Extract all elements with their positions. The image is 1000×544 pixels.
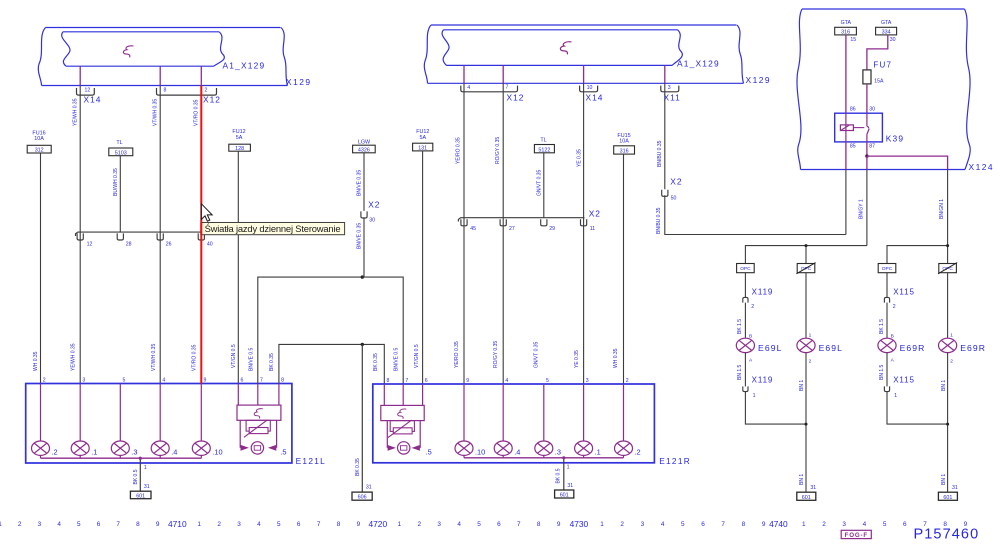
pin stub A1.12 xyxy=(79,66,81,85)
svg-text:BN/VE 0.35: BN/VE 0.35 xyxy=(357,223,363,249)
svg-text:7: 7 xyxy=(405,378,408,384)
svg-text:FU7: FU7 xyxy=(873,60,892,69)
svg-text:26: 26 xyxy=(166,241,172,247)
svg-text:6: 6 xyxy=(497,521,501,528)
svg-text:RO/GY 0.35: RO/GY 0.35 xyxy=(495,137,501,164)
svg-text:6: 6 xyxy=(903,521,907,528)
wire K39.85 down xyxy=(845,142,847,170)
svg-text:128: 128 xyxy=(235,146,244,152)
svg-text:7: 7 xyxy=(317,521,321,528)
svg-text:GTA: GTA xyxy=(881,20,892,26)
svg-text:2: 2 xyxy=(43,378,46,384)
svg-text:85: 85 xyxy=(850,144,856,150)
svg-text:OPC: OPC xyxy=(740,266,751,272)
lamp E121L.4 xyxy=(151,384,177,459)
svg-text:BN/VE 0.35: BN/VE 0.35 xyxy=(357,170,363,196)
svg-text:E69R: E69R xyxy=(960,343,986,353)
lamp E121R.3 xyxy=(535,384,561,458)
connector X2 pin 29 cup xyxy=(541,219,555,232)
wire 87 down (BN/GY) xyxy=(866,156,868,169)
OPC box crossed (E69R direct) xyxy=(938,263,957,274)
pin stub A1.2 xyxy=(200,66,202,85)
svg-text:BK 0.5: BK 0.5 xyxy=(556,468,562,483)
svg-text:3: 3 xyxy=(437,521,441,528)
lamp E121R.10 xyxy=(455,384,485,458)
lamp E121L.3 xyxy=(111,384,137,459)
svg-text:X11: X11 xyxy=(664,93,681,103)
svg-text:Światła jazdy dziennej Sterowa: Światła jazdy dziennej Sterowanie xyxy=(205,223,341,234)
svg-text:P157460: P157460 xyxy=(914,527,980,543)
svg-text:2: 2 xyxy=(217,521,221,528)
svg-text:YE/RO 0.35: YE/RO 0.35 xyxy=(456,137,462,164)
svg-text:X129: X129 xyxy=(746,75,772,85)
svg-text:BN 1.5: BN 1.5 xyxy=(879,364,885,380)
svg-text:WH 0.35: WH 0.35 xyxy=(613,348,619,368)
svg-text:4: 4 xyxy=(257,521,261,528)
svg-text:.1: .1 xyxy=(595,447,601,456)
svg-text:3: 3 xyxy=(586,378,589,384)
svg-text:6: 6 xyxy=(701,521,705,528)
svg-text:3: 3 xyxy=(237,521,241,528)
relay K39 contact xyxy=(867,113,870,142)
svg-text:15A: 15A xyxy=(874,78,884,84)
svg-text:4: 4 xyxy=(467,85,470,91)
svg-text:BU/WH 0.35: BU/WH 0.35 xyxy=(113,168,119,196)
svg-text:BK 0.35: BK 0.35 xyxy=(269,353,275,371)
svg-text:LGW: LGW xyxy=(358,139,371,145)
svg-text:601: 601 xyxy=(802,495,811,501)
svg-text:27: 27 xyxy=(509,226,515,232)
svg-text:2: 2 xyxy=(809,358,812,364)
svg-text:10: 10 xyxy=(587,85,593,91)
wire OPC to X119.2 xyxy=(744,273,746,298)
svg-text:A1_X129: A1_X129 xyxy=(223,61,266,71)
svg-text:8: 8 xyxy=(742,521,746,528)
svg-text:7: 7 xyxy=(116,521,120,528)
svg-text:YE 0.35: YE 0.35 xyxy=(574,350,580,368)
svg-text:VT/WH 0.35: VT/WH 0.35 xyxy=(151,344,157,371)
svg-text:X2: X2 xyxy=(368,199,380,209)
svg-text:4: 4 xyxy=(457,521,461,528)
svg-text:312: 312 xyxy=(35,148,44,154)
svg-text:E121R: E121R xyxy=(659,456,691,466)
svg-text:31: 31 xyxy=(567,483,573,489)
svg-text:8: 8 xyxy=(281,378,284,384)
svg-text:GTA: GTA xyxy=(841,20,852,26)
wire YE/WH 0.35 X14.12 down xyxy=(79,86,81,384)
svg-text:WH 0.35: WH 0.35 xyxy=(33,351,39,371)
svg-text:X119: X119 xyxy=(752,287,774,296)
svg-text:9: 9 xyxy=(156,521,160,528)
svg-text:.5: .5 xyxy=(280,447,286,456)
svg-text:50: 50 xyxy=(671,196,677,202)
E121R lamp bus xyxy=(464,457,624,459)
relay K39 box xyxy=(835,113,883,142)
wire BN 1 lamp 2 down xyxy=(941,353,958,493)
wire VT/RO 0.35 highlighted red xyxy=(200,86,202,384)
svg-text:.10: .10 xyxy=(475,447,485,456)
svg-text:X2: X2 xyxy=(670,177,682,187)
wire BN 1.5 lamp A to X119.1 xyxy=(737,353,753,387)
tooltip Światła jazdy dziennej Sterowanie xyxy=(201,223,344,235)
lamp E69L (outer) xyxy=(736,338,782,353)
svg-text:.4: .4 xyxy=(171,447,177,456)
OPC box (E69L X119 side) xyxy=(737,264,755,273)
svg-text:3: 3 xyxy=(668,85,671,91)
wire 30 GTA334 to FU7 xyxy=(867,35,888,70)
svg-text:2: 2 xyxy=(18,521,22,528)
wire feed right lamps xyxy=(887,246,948,264)
wire OPC to lamp E69L 1 xyxy=(806,273,812,339)
svg-text:4: 4 xyxy=(661,521,665,528)
connector X14 bracket pin 10 (middle) xyxy=(580,85,598,92)
junction 606 drop xyxy=(361,343,364,346)
svg-text:VT/GN 0.5: VT/GN 0.5 xyxy=(414,344,420,368)
svg-text:VT/WH 0.35: VT/WH 0.35 xyxy=(153,99,159,126)
svg-text:11: 11 xyxy=(590,226,595,232)
fuse FU12 5A ref 128 xyxy=(229,129,251,152)
pin stub A1.7 xyxy=(502,65,504,83)
svg-text:7: 7 xyxy=(517,521,521,528)
wire BK 0.35 bus (E121L.8 - E121R.8) xyxy=(279,344,384,384)
svg-text:1: 1 xyxy=(600,521,604,528)
svg-text:BN/GY 1: BN/GY 1 xyxy=(859,199,865,219)
svg-text:12: 12 xyxy=(85,88,91,94)
svg-text:31: 31 xyxy=(144,484,150,490)
svg-text:6: 6 xyxy=(297,521,301,528)
connector X129 (left harness torn box) xyxy=(38,28,311,88)
wire BN/VE 0.35 X2.30 to junction xyxy=(357,217,365,277)
connector X115 pin 1 xyxy=(884,376,915,399)
junction LGW drop xyxy=(361,275,364,278)
svg-text:BN 1: BN 1 xyxy=(799,380,805,391)
break squiggle (middle A1 box) xyxy=(560,42,571,55)
svg-text:.3: .3 xyxy=(131,447,137,456)
module box E121L xyxy=(26,384,292,464)
wire BU/WH 0.35 TL to X2.28 xyxy=(119,156,121,232)
module A1_X129 (left, inner torn box) xyxy=(62,32,266,71)
svg-text:.2: .2 xyxy=(52,447,58,456)
svg-text:4730: 4730 xyxy=(570,519,589,529)
svg-text:X119: X119 xyxy=(752,376,774,385)
svg-text:4: 4 xyxy=(57,521,61,528)
svg-text:316: 316 xyxy=(841,30,850,36)
DRL unit E121L.5 xyxy=(237,384,286,457)
E121L ground drop pin 1 xyxy=(133,457,150,492)
connector X2 row line (middle) xyxy=(458,218,584,222)
svg-text:30: 30 xyxy=(869,107,875,113)
wire BK 1.5 to lamp E69L B xyxy=(737,303,752,340)
sheet tag FOG-F xyxy=(841,530,871,539)
lamp E121L.10 xyxy=(192,384,222,459)
E121L pin numbers xyxy=(43,378,284,384)
svg-text:2: 2 xyxy=(822,521,826,528)
svg-text:601: 601 xyxy=(943,495,952,501)
wire X119.1 to join xyxy=(745,392,806,425)
svg-text:15: 15 xyxy=(850,37,856,43)
svg-text:2: 2 xyxy=(205,88,208,94)
svg-text:RO/GY 0.35: RO/GY 0.35 xyxy=(493,341,499,368)
module box E121R xyxy=(373,384,655,463)
svg-text:.1: .1 xyxy=(91,447,97,456)
svg-text:1: 1 xyxy=(753,393,756,399)
connector X2 pin 12 cup xyxy=(77,233,92,247)
pin stub A1.8 xyxy=(159,66,161,85)
junction K39.87 xyxy=(865,154,868,157)
lamp E69R (inner) xyxy=(939,338,987,353)
wire FU7 to K39.30 xyxy=(866,84,868,113)
svg-text:1: 1 xyxy=(950,332,953,338)
svg-text:601: 601 xyxy=(136,493,145,499)
svg-text:316: 316 xyxy=(620,149,629,155)
wire BN/VE 0.5 bus (E121L.7 - E121R.7) xyxy=(258,277,403,384)
svg-text:E121L: E121L xyxy=(296,456,327,466)
svg-text:VT/RO 0.35: VT/RO 0.35 xyxy=(191,344,197,371)
svg-text:3: 3 xyxy=(842,521,846,528)
svg-text:3: 3 xyxy=(82,378,85,384)
svg-text:9: 9 xyxy=(204,378,207,384)
svg-text:45: 45 xyxy=(470,226,476,232)
svg-text:86: 86 xyxy=(850,107,856,113)
svg-text:X124: X124 xyxy=(969,162,995,172)
svg-text:2: 2 xyxy=(893,304,896,310)
wire BN 1.5 lamp A to X115.1 xyxy=(879,353,895,387)
svg-text:BK 1.5: BK 1.5 xyxy=(737,319,743,334)
svg-text:5122: 5122 xyxy=(538,147,550,153)
svg-text:E69R: E69R xyxy=(900,343,926,353)
svg-text:X115: X115 xyxy=(893,376,915,385)
svg-text:VT/GN 0.5: VT/GN 0.5 xyxy=(231,344,237,368)
svg-text:FOG-F: FOG-F xyxy=(845,532,868,539)
connector X2 pin 50 cup xyxy=(662,177,683,202)
break squiggle (left A1 box) xyxy=(123,46,133,57)
lamp E121R.2 xyxy=(615,384,641,458)
svg-text:4: 4 xyxy=(863,521,867,528)
ground ref 606 xyxy=(352,492,372,501)
svg-text:5A: 5A xyxy=(420,135,427,141)
svg-text:5: 5 xyxy=(123,378,126,384)
connector X119 pin 1 xyxy=(743,376,774,399)
wire OPC to X115.2 xyxy=(886,273,888,298)
E121R ground drop pin 1 xyxy=(556,456,574,490)
pin stub A1.3 xyxy=(664,65,666,83)
svg-text:E69L: E69L xyxy=(758,343,782,353)
svg-text:BN/GN 1: BN/GN 1 xyxy=(939,199,945,219)
svg-text:5: 5 xyxy=(277,521,281,528)
svg-text:OPC: OPC xyxy=(801,266,812,272)
svg-text:9: 9 xyxy=(357,521,361,528)
svg-text:4710: 4710 xyxy=(168,519,187,529)
svg-text:BN 1: BN 1 xyxy=(941,380,947,391)
ground ref 601 (E121L) xyxy=(130,491,151,499)
fuse FU12 5A ref 131 xyxy=(413,129,433,152)
pin stub A1.4 xyxy=(463,65,465,83)
svg-text:BN/VE 0.5: BN/VE 0.5 xyxy=(248,347,254,371)
wire WH 0.35 FU15 to E121R.2 xyxy=(613,154,624,384)
E121R pin numbers xyxy=(387,378,629,384)
pin stub A1.10 xyxy=(583,65,585,83)
connector X2 pin 11 cup xyxy=(581,219,596,232)
lamp E121R.1 xyxy=(575,384,601,458)
E121L lamp bus xyxy=(41,457,202,459)
svg-text:30: 30 xyxy=(890,37,896,43)
svg-text:BN/BU 0.35: BN/BU 0.35 xyxy=(656,207,662,234)
svg-text:OPC: OPC xyxy=(942,266,953,272)
svg-text:6: 6 xyxy=(97,521,101,528)
svg-text:OPC: OPC xyxy=(882,266,893,272)
svg-text:.10: .10 xyxy=(212,447,222,456)
svg-text:X12: X12 xyxy=(203,95,221,105)
svg-text:1: 1 xyxy=(894,393,897,399)
connector X11 bracket pin 3 xyxy=(661,85,679,92)
connector X2 pin 26 cup xyxy=(157,233,172,247)
connector X124 torn box xyxy=(797,9,994,172)
svg-text:YE 0.35: YE 0.35 xyxy=(576,149,582,167)
branch to OPC2 xyxy=(805,246,807,264)
ground ref 601 (E69R) xyxy=(938,492,957,501)
svg-text:31: 31 xyxy=(952,485,958,491)
connector X119 pin 2 xyxy=(743,287,774,310)
svg-text:3: 3 xyxy=(641,521,645,528)
lamp E69L (inner) xyxy=(797,338,843,353)
svg-text:BN 1.5: BN 1.5 xyxy=(737,364,743,380)
connector X129 (middle harness torn box) xyxy=(424,25,771,85)
OPC box (E69R X115 side) xyxy=(878,264,896,273)
svg-text:4326: 4326 xyxy=(358,148,370,154)
svg-text:GN/VT 0.35: GN/VT 0.35 xyxy=(533,341,539,368)
svg-text:YE/RO 0.35: YE/RO 0.35 xyxy=(454,341,460,368)
wire BN 1 lamp 2 down xyxy=(799,353,816,493)
svg-text:4740: 4740 xyxy=(769,519,788,529)
svg-text:TL: TL xyxy=(116,140,122,146)
wire K39.87 down xyxy=(866,142,868,156)
connector X12 bracket pins 8,2 xyxy=(157,88,217,96)
svg-text:8: 8 xyxy=(337,521,341,528)
svg-text:3: 3 xyxy=(38,521,42,528)
svg-text:31: 31 xyxy=(810,485,816,491)
wire BN/VE 0.35 LGW to X2.30 xyxy=(357,153,365,211)
svg-text:28: 28 xyxy=(126,241,132,247)
svg-text:2: 2 xyxy=(751,304,754,310)
ruler scale row xyxy=(0,519,968,529)
svg-text:BN/BU 0.35: BN/BU 0.35 xyxy=(657,140,663,167)
svg-text:BN/VE 0.5: BN/VE 0.5 xyxy=(394,347,400,371)
svg-text:1: 1 xyxy=(809,332,812,338)
svg-text:VT/RO 0.35: VT/RO 0.35 xyxy=(193,99,199,126)
svg-text:601: 601 xyxy=(560,493,569,499)
svg-text:BK 0.5: BK 0.5 xyxy=(133,469,139,484)
svg-text:2: 2 xyxy=(620,521,624,528)
ground ref 601 (E121R) xyxy=(555,490,574,499)
wire feed left lamps xyxy=(745,246,867,264)
svg-text:9: 9 xyxy=(466,378,469,384)
DRL unit E121R.5 xyxy=(381,384,432,456)
svg-text:X2: X2 xyxy=(589,208,601,218)
svg-text:5A: 5A xyxy=(236,135,243,141)
switch TL ref 5103 xyxy=(109,140,133,156)
mouse cursor xyxy=(201,204,212,221)
svg-text:X12: X12 xyxy=(507,93,525,103)
terminal GTA ref 334 xyxy=(876,20,897,43)
svg-text:4720: 4720 xyxy=(368,519,387,529)
module A1_X129 (middle, inner torn box) xyxy=(442,30,720,69)
switch TL ref 5122 xyxy=(534,137,554,153)
connector X12 bracket pins 4,7 (middle) xyxy=(461,84,518,91)
svg-text:10A: 10A xyxy=(34,136,44,142)
connector X14 bracket pin 12 xyxy=(77,88,95,96)
connector X2 pin 40 cup xyxy=(198,233,213,247)
wire YE/RO 0.35 X12.4 down xyxy=(463,83,465,384)
svg-text:X14: X14 xyxy=(84,95,102,105)
svg-text:9: 9 xyxy=(557,521,561,528)
connector X2 pin 27 cup xyxy=(500,219,515,232)
svg-text:2: 2 xyxy=(418,521,422,528)
svg-text:2: 2 xyxy=(626,378,629,384)
svg-text:1: 1 xyxy=(197,521,201,528)
svg-text:12: 12 xyxy=(87,241,93,247)
svg-text:1: 1 xyxy=(398,521,402,528)
svg-text:X129: X129 xyxy=(286,77,312,87)
wire BN/BU 0.35 X11.3 to K39.85 line xyxy=(664,83,666,189)
wire WH 0.35 FU16 to E121L.2 xyxy=(40,153,42,384)
svg-text:4: 4 xyxy=(505,378,508,384)
svg-text:1: 1 xyxy=(144,465,147,471)
wire RO/GY 0.35 X12.7 down xyxy=(502,83,504,384)
relay K39 coil xyxy=(840,113,864,142)
svg-text:8: 8 xyxy=(136,521,140,528)
svg-text:X115: X115 xyxy=(893,287,915,296)
wire YE 0.35 X14.10 down xyxy=(583,83,585,384)
svg-text:2: 2 xyxy=(950,358,953,364)
fuse FU15 10A ref 316 xyxy=(614,133,635,155)
switch LGW ref 4326 xyxy=(353,139,376,153)
wire VT/GN 0.5 FU12 to E121R.6 xyxy=(414,151,423,384)
svg-text:X14: X14 xyxy=(586,93,604,103)
svg-text:7: 7 xyxy=(721,521,725,528)
svg-text:8: 8 xyxy=(387,378,390,384)
svg-text:40: 40 xyxy=(207,241,213,247)
connector X115 pin 2 xyxy=(884,287,915,310)
svg-text:E69L: E69L xyxy=(819,343,843,353)
terminal GTA ref 316 xyxy=(835,20,857,43)
lamp E121R.4 xyxy=(494,384,520,458)
svg-text:K39: K39 xyxy=(886,134,905,144)
svg-text:5: 5 xyxy=(883,521,887,528)
svg-text:5: 5 xyxy=(546,378,549,384)
svg-text:BK 0.35: BK 0.35 xyxy=(355,458,361,476)
svg-text:.4: .4 xyxy=(514,447,520,456)
svg-text:1: 1 xyxy=(802,521,806,528)
svg-text:131: 131 xyxy=(418,146,427,152)
svg-text:606: 606 xyxy=(358,495,367,501)
svg-text:A1_X129: A1_X129 xyxy=(677,59,720,69)
wire 87 branch right (BN/GN) xyxy=(867,156,948,169)
svg-text:.2: .2 xyxy=(635,447,641,456)
svg-text:7: 7 xyxy=(260,378,263,384)
connector X2 pin 30 cup xyxy=(361,199,381,223)
wire OPC to lamp E69R 1 xyxy=(948,273,954,339)
red wire over tooltip xyxy=(200,223,202,235)
wire BK 0.35 to ground 606 xyxy=(355,344,372,492)
connector X2 pin 28 cup xyxy=(117,233,131,247)
svg-text:BN 1: BN 1 xyxy=(799,474,805,485)
svg-text:8: 8 xyxy=(537,521,541,528)
wire 15 GTA316 to K39.86 xyxy=(845,35,847,113)
svg-text:.3: .3 xyxy=(555,447,561,456)
svg-text:1: 1 xyxy=(567,465,570,471)
svg-text:8: 8 xyxy=(164,88,167,94)
wire GN/VT 0.35 TL to X2.29 xyxy=(536,153,544,218)
